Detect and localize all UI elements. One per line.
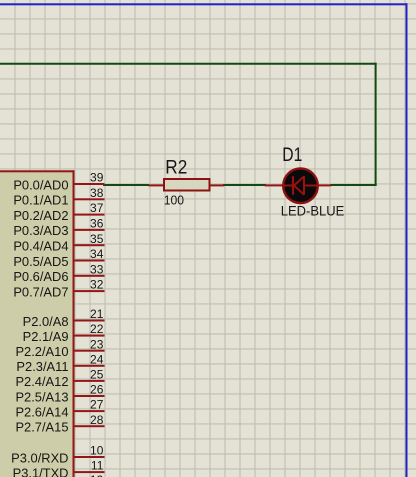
- pin P2.1/A9 (22): [23, 322, 105, 344]
- wire right vertical: [375, 63, 377, 186]
- pin P0.1/AD1 (38): [13, 186, 104, 208]
- pin P3.1/TXD (11): [13, 459, 105, 477]
- pin P0.6/AD6 (33): [13, 262, 104, 284]
- pin P2.4/A12 (25): [15, 368, 104, 390]
- pin P0.0/AD0 (39): [13, 171, 104, 193]
- svg-text:32: 32: [90, 278, 104, 292]
- svg-text:R2: R2: [165, 158, 187, 179]
- svg-text:P0.5/AD5: P0.5/AD5: [13, 254, 68, 269]
- pin P2.2/A10 (23): [15, 337, 104, 359]
- svg-text:34: 34: [90, 247, 104, 261]
- pin P2.0/A8 (21): [23, 307, 105, 329]
- svg-text:P2.4/A12: P2.4/A12: [15, 374, 68, 389]
- svg-text:37: 37: [90, 201, 104, 215]
- svg-text:D1: D1: [282, 145, 302, 166]
- wire R2 to D1: [223, 184, 266, 186]
- svg-text:P0.0/AD0: P0.0/AD0: [13, 177, 68, 192]
- chip U1 body (8051, partially visible): [0, 170, 75, 477]
- svg-text:12: 12: [90, 473, 104, 477]
- svg-text:P0.2/AD2: P0.2/AD2: [13, 208, 68, 223]
- sheet border right: [406, 3, 408, 477]
- pin P0.3/AD3 (36): [13, 217, 104, 239]
- sheet border top: [0, 3, 408, 5]
- svg-text:38: 38: [90, 186, 104, 200]
- LED D1: [265, 169, 332, 204]
- svg-text:P2.1/A9: P2.1/A9: [23, 329, 69, 344]
- pin P0.4/AD4 (35): [13, 232, 104, 254]
- svg-text:P0.7/AD7: P0.7/AD7: [13, 284, 68, 299]
- pin P2.7/A15 (28): [15, 413, 104, 435]
- svg-text:27: 27: [90, 398, 104, 412]
- svg-text:33: 33: [90, 262, 104, 276]
- svg-text:21: 21: [90, 307, 104, 321]
- wire top horizontal: [0, 63, 377, 65]
- svg-text:P2.0/A8: P2.0/A8: [23, 314, 69, 329]
- svg-text:P3.1/TXD: P3.1/TXD: [13, 465, 69, 477]
- svg-text:23: 23: [90, 337, 104, 351]
- svg-text:P2.3/A11: P2.3/A11: [16, 359, 68, 374]
- pin P2.5/A13 (26): [15, 383, 104, 405]
- wire D1 to corner: [330, 184, 377, 186]
- svg-text:39: 39: [90, 171, 104, 185]
- wire pin39 to R2: [103, 184, 149, 186]
- svg-text:24: 24: [90, 352, 104, 366]
- svg-text:11: 11: [91, 459, 104, 473]
- svg-text:P3.0/RXD: P3.0/RXD: [11, 450, 68, 465]
- pin P2.3/A11 (24): [16, 352, 104, 374]
- svg-text:P2.6/A14: P2.6/A14: [15, 404, 68, 419]
- pin P2.6/A14 (27): [15, 398, 104, 420]
- svg-text:22: 22: [90, 322, 104, 336]
- pin P0.2/AD2 (37): [13, 201, 104, 223]
- svg-text:P0.4/AD4: P0.4/AD4: [13, 239, 68, 254]
- pin P3.2/INT0 (12) partially visible: [90, 473, 104, 477]
- svg-text:10: 10: [90, 444, 104, 458]
- svg-text:P2.7/A15: P2.7/A15: [15, 420, 68, 435]
- svg-text:28: 28: [90, 413, 104, 427]
- svg-text:26: 26: [90, 383, 104, 397]
- pin P0.7/AD7 (32): [13, 278, 104, 300]
- svg-text:P0.3/AD3: P0.3/AD3: [13, 223, 68, 238]
- svg-text:P2.5/A13: P2.5/A13: [15, 389, 68, 404]
- pin P3.0/RXD (10): [11, 444, 104, 466]
- svg-text:P2.2/A10: P2.2/A10: [15, 344, 68, 359]
- svg-text:LED-BLUE: LED-BLUE: [281, 204, 345, 219]
- svg-text:36: 36: [90, 217, 104, 231]
- svg-text:P0.6/AD6: P0.6/AD6: [13, 269, 68, 284]
- svg-text:100: 100: [164, 192, 184, 207]
- svg-text:25: 25: [90, 368, 104, 382]
- resistor R2: [148, 179, 224, 191]
- svg-text:P0.1/AD1: P0.1/AD1: [13, 193, 68, 208]
- pin P0.5/AD5 (34): [13, 247, 104, 269]
- svg-text:35: 35: [90, 232, 104, 246]
